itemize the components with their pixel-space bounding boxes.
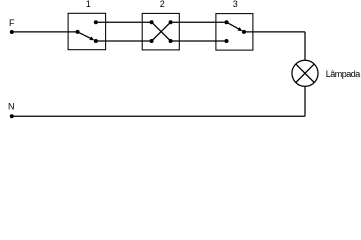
wire bottom rail to N xyxy=(12,115,305,117)
switch S3 lever arrowhead xyxy=(238,27,243,31)
svg-text:N: N xyxy=(8,101,15,111)
switch S2 top-left node xyxy=(150,20,154,24)
svg-text:F: F xyxy=(9,18,15,28)
switch S1 pole node xyxy=(76,30,80,34)
switch S3 bottom-left node xyxy=(225,39,229,43)
switch S3 pole node xyxy=(242,30,246,34)
wire S3 pole to lamp (horizontal) xyxy=(244,31,305,33)
wire S2 bottom-right to S3 bottom-left xyxy=(171,40,227,42)
switch S2 bottom-left node xyxy=(150,39,154,43)
wire S1 bottom contact to S2 bottom-left xyxy=(96,40,152,42)
switch S1 bottom contact node xyxy=(94,39,98,43)
switch S1 lever xyxy=(78,32,92,39)
switch S2 box xyxy=(142,13,179,50)
svg-text:1: 1 xyxy=(86,0,91,9)
switch S3 lever xyxy=(227,22,240,29)
switch S2 cross link BL-TR xyxy=(152,22,171,41)
switch S3 box xyxy=(216,14,253,51)
svg-text:3: 3 xyxy=(233,0,238,9)
switch S2 bottom-right node xyxy=(169,39,173,43)
wire F to switch 1 pole xyxy=(12,31,78,33)
wire S1 top contact to S2 top-left xyxy=(96,21,152,23)
switch S3 top-left node xyxy=(225,20,229,24)
wire lamp to bottom rail xyxy=(304,86,306,116)
lamp L1 cross stroke 1 xyxy=(296,64,314,82)
wire lamp drop (vertical) xyxy=(304,32,306,60)
wire S2 top-right to S3 top-left xyxy=(171,21,227,23)
terminal N xyxy=(10,114,14,118)
switch S1 top contact node xyxy=(94,20,98,24)
lamp L1 cross stroke 2 xyxy=(296,64,314,82)
lamp L1 circle xyxy=(292,60,318,86)
switch S1 lever arrowhead xyxy=(89,36,94,40)
svg-text:2: 2 xyxy=(160,0,165,9)
svg-text:Lâmpada: Lâmpada xyxy=(326,69,361,79)
terminal F xyxy=(10,30,14,34)
switch S2 top-right node xyxy=(169,20,173,24)
switch S1 box xyxy=(68,13,106,49)
switch S2 cross link TL-BR xyxy=(152,22,171,41)
